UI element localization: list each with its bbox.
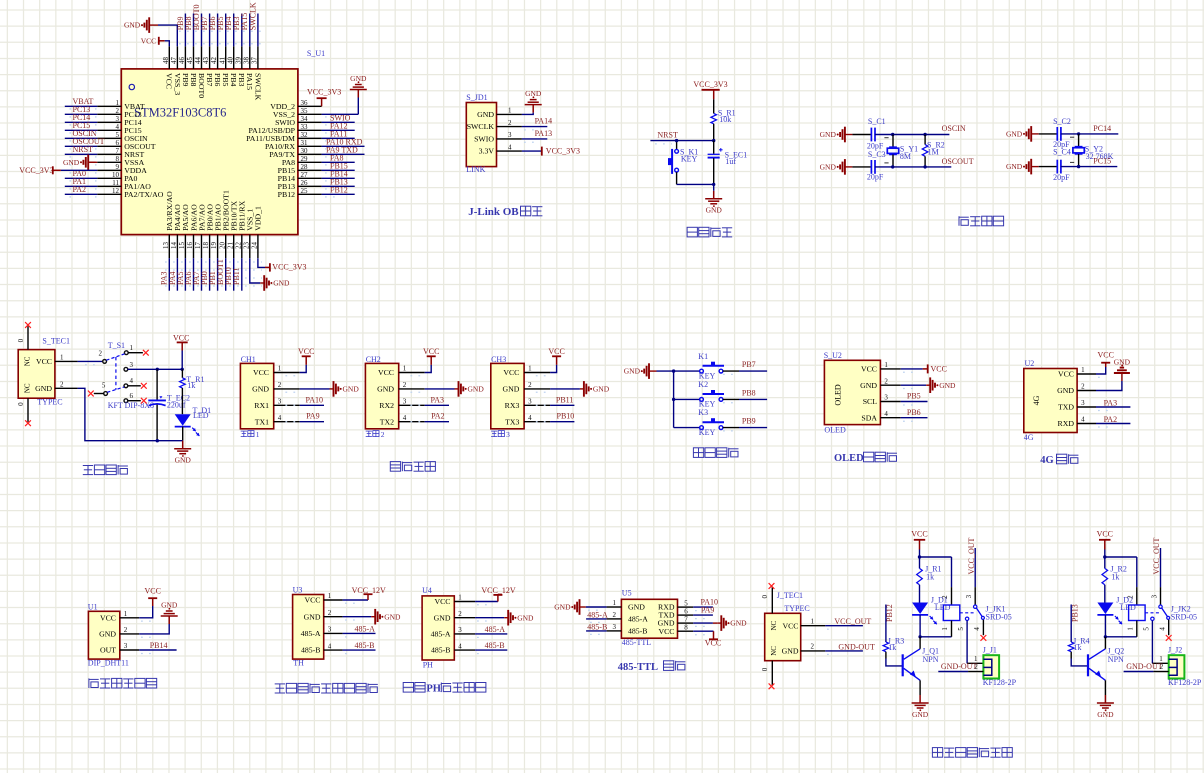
power GND at CH1 pin 2 xyxy=(285,381,359,397)
svg-text:VCC_3V3: VCC_3V3 xyxy=(307,88,341,97)
wire GND to C4 xyxy=(1039,166,1058,168)
svg-text:S_C1: S_C1 xyxy=(868,117,886,126)
power VCC at DHT11 pin 1 xyxy=(139,586,161,621)
svg-text:VCC_3V3: VCC_3V3 xyxy=(693,80,727,89)
svg-text:VCC_OUT: VCC_OUT xyxy=(1152,537,1161,574)
svg-text:PA15: PA15 xyxy=(245,73,254,90)
power VCC_12V at U3 pin 1 xyxy=(343,586,386,604)
svg-text:U2: U2 xyxy=(1025,359,1035,368)
wire LED to collector node 1 xyxy=(919,615,921,637)
svg-text:1: 1 xyxy=(1126,627,1134,631)
U1 top pin stubs xyxy=(169,46,258,69)
svg-text:RX2: RX2 xyxy=(379,401,394,410)
capacitor S_C1 20pF xyxy=(867,117,886,150)
svg-text:GND: GND xyxy=(624,367,641,376)
svg-text:6: 6 xyxy=(130,392,134,400)
sensor U1 DIP_DHT11 body xyxy=(88,602,129,667)
wire and net label PA13 (S_JD1 pin 3) xyxy=(522,129,552,142)
svg-text:485-B: 485-B xyxy=(587,622,607,631)
resistor S_R1 10k xyxy=(711,108,736,123)
svg-text:1: 1 xyxy=(1081,366,1085,374)
resistor J_R4 1k xyxy=(1068,636,1089,652)
title J-Link OB interface xyxy=(468,206,542,218)
svg-text:VCC: VCC xyxy=(782,621,798,630)
connector CH3 body xyxy=(491,355,524,429)
S_TEC1 shell pin bottom no-connect xyxy=(17,398,31,426)
svg-text:VCC: VCC xyxy=(1058,370,1074,379)
LED J_D1 xyxy=(912,596,951,625)
svg-text:1k: 1k xyxy=(1074,643,1082,652)
svg-text:OSCOUT: OSCOUT xyxy=(942,157,974,166)
wire and net label PB0 (U1 pin 18) xyxy=(200,258,210,291)
svg-text:GND: GND xyxy=(1114,358,1131,367)
title 4G module xyxy=(1040,454,1078,466)
power VCC at CH2 pin 1 xyxy=(410,347,439,376)
grid marks left of U1 xyxy=(70,108,96,200)
svg-text:VCC: VCC xyxy=(173,334,189,343)
wire J_R3 to base xyxy=(886,652,903,666)
svg-text:485-TTL: 485-TTL xyxy=(618,662,658,673)
svg-text:PH: PH xyxy=(426,684,441,695)
power VCC at S_U2 pin 1 xyxy=(901,364,947,373)
svg-text:GND: GND xyxy=(554,603,571,612)
connector CH2 body xyxy=(365,355,398,429)
power GND of relay circuit 1 xyxy=(912,695,929,719)
svg-text:U5: U5 xyxy=(622,589,632,598)
svg-text:1M: 1M xyxy=(928,148,939,157)
svg-text:485-A: 485-A xyxy=(485,625,506,634)
svg-text:GND: GND xyxy=(502,385,519,394)
svg-text:GND: GND xyxy=(860,381,877,390)
svg-text:3: 3 xyxy=(613,623,617,631)
svg-text:CH3: CH3 xyxy=(491,355,506,364)
LED J_D2 xyxy=(1097,596,1136,625)
no-connect X relay 2 pin 4 xyxy=(1166,635,1172,641)
power VCC of relay circuit 2 xyxy=(1097,530,1113,558)
svg-text:3: 3 xyxy=(965,594,973,598)
svg-text:GND: GND xyxy=(593,385,610,394)
svg-text:1k: 1k xyxy=(1111,572,1119,581)
svg-text:1uf: 1uf xyxy=(725,157,736,166)
wire and net label PA14 (S_JD1 pin 2) xyxy=(522,117,552,130)
svg-text:4G: 4G xyxy=(1024,433,1034,442)
wire and net label 485-B at U3 pin 4 xyxy=(343,641,376,654)
wire and net label GND-OUT at J_TEC1 pin 2 xyxy=(825,643,875,655)
svg-text:CH1: CH1 xyxy=(241,355,256,364)
svg-text:1: 1 xyxy=(130,344,134,352)
push button K1 KEY xyxy=(698,352,724,381)
svg-text:GND: GND xyxy=(912,710,929,719)
svg-text:5: 5 xyxy=(957,627,965,631)
capacitor S_C3 20pF xyxy=(867,150,886,181)
wire GND to keys xyxy=(657,369,701,427)
wire and net label PB7 at K1 xyxy=(723,360,767,374)
U4 pin names xyxy=(431,597,451,655)
relay J_JK2 SRD-05 coil xyxy=(1126,557,1197,637)
svg-text:S_C2: S_C2 xyxy=(1053,117,1071,126)
module U5 485-TTL body xyxy=(621,589,677,647)
wire and net label PA9 TXD (U1 pin 30) xyxy=(322,146,365,155)
wire and net label SWCLK (U1 pin 37) xyxy=(248,2,258,46)
wire PC15 net xyxy=(1061,157,1118,169)
svg-text:OLED: OLED xyxy=(834,453,864,464)
svg-text:2: 2 xyxy=(458,610,462,618)
power GND at S_U2 pin 2 xyxy=(901,377,956,393)
node junction collector 2 xyxy=(1104,635,1137,638)
capacitor T_EC2 220uf polarized xyxy=(148,369,190,440)
svg-text:8M: 8M xyxy=(900,152,911,161)
U1 right pin names xyxy=(246,102,295,199)
power GND at U3 pin 2 xyxy=(343,609,401,625)
svg-text:LED: LED xyxy=(193,411,209,420)
wire and net label PA1 (U1 pin 11) xyxy=(65,177,97,186)
svg-text:3: 3 xyxy=(1081,399,1085,407)
svg-text:5: 5 xyxy=(1142,627,1150,631)
power GND at CH3 pin 2 xyxy=(536,381,610,397)
svg-text:7: 7 xyxy=(684,615,688,623)
svg-text:K3: K3 xyxy=(698,408,708,417)
power GND of relay circuit 2 xyxy=(1097,695,1114,719)
S_JD1 pin stubs and numbers xyxy=(497,107,522,152)
wire and net label PB7 (U1 pin 43) xyxy=(200,14,210,47)
wire and net label VBAT (U1 pin 1) xyxy=(65,97,97,106)
connector S_JD1 J-Link body xyxy=(466,93,496,174)
S_JD1 pin names xyxy=(467,110,495,156)
module U2 4G body xyxy=(1024,359,1077,442)
svg-text:GND: GND xyxy=(820,130,837,139)
svg-text:4: 4 xyxy=(884,410,888,418)
power GND at S_C4 xyxy=(1006,159,1039,175)
wire and net label PB15 (U1 pin 28) xyxy=(322,162,355,171)
svg-text:VCC_3V3: VCC_3V3 xyxy=(19,166,53,175)
svg-text:4: 4 xyxy=(328,642,332,650)
svg-text:NC: NC xyxy=(770,646,778,656)
svg-text:SRD-05: SRD-05 xyxy=(1171,613,1197,622)
svg-text:PB6: PB6 xyxy=(213,73,222,87)
relay J_JK1 SRD-05 coil xyxy=(941,557,1012,637)
svg-text:VCC: VCC xyxy=(658,627,674,636)
wire and net label PA5 (U1 pin 15) xyxy=(176,258,186,291)
wire OSCOUT net xyxy=(875,157,974,167)
svg-text:4: 4 xyxy=(1081,416,1085,424)
resistor J_R2 1k xyxy=(1102,557,1127,585)
wire and net label VCC_OUT at J_TEC1 pin 1 xyxy=(825,617,871,629)
S_U2 pin names xyxy=(860,365,877,423)
svg-text:PA10: PA10 xyxy=(306,395,324,404)
terminal block J_J1 KF128-2P xyxy=(983,646,1017,687)
svg-text:5: 5 xyxy=(684,599,688,607)
svg-text:VCC: VCC xyxy=(144,586,160,595)
svg-text:4: 4 xyxy=(403,414,407,422)
svg-text:SWCLK: SWCLK xyxy=(467,122,495,131)
svg-text:485-B: 485-B xyxy=(431,646,451,655)
svg-text:PB12: PB12 xyxy=(278,190,295,199)
svg-text:VCC: VCC xyxy=(100,613,116,622)
svg-text:VCC_12V: VCC_12V xyxy=(352,586,386,595)
wire and net label PA10 at CH1 pin 3 xyxy=(285,395,324,405)
title soil PH detect module xyxy=(403,683,486,695)
wire and net label PB11 (U1 pin 22) xyxy=(232,258,242,291)
power VCC_3V3 at S_JD1 pin 4 xyxy=(522,146,580,155)
power GND of key circuit xyxy=(624,363,657,379)
svg-text:SWCLK: SWCLK xyxy=(248,2,257,30)
crystal S_Y1 8M xyxy=(884,135,918,167)
svg-text:GND: GND xyxy=(468,385,485,394)
wire and net label PB12 (U1 pin 25) xyxy=(322,186,355,195)
power GND at S_C1 xyxy=(820,127,853,143)
svg-text:3: 3 xyxy=(506,430,510,439)
wire and net label PB5 at S_U2 pin 3 xyxy=(901,392,928,405)
svg-text:VCC: VCC xyxy=(165,73,174,89)
svg-text:SWIO: SWIO xyxy=(474,135,494,144)
svg-text:OLED: OLED xyxy=(834,384,843,406)
wire and net label BOOT0 (U1 pin 44) xyxy=(192,5,202,47)
relay J_JK2 switch xyxy=(1142,587,1169,635)
power GND at U1 pin 8 VSSA xyxy=(63,155,97,171)
wire and net label PB10 at CH3 pin 4 xyxy=(536,412,575,422)
S_TEC1 pin names VCC GND NC xyxy=(24,356,53,393)
svg-text:1: 1 xyxy=(256,430,260,439)
wire and net label PB11 at CH3 pin 3 xyxy=(536,395,575,405)
power GND at U1 pin 35 VSS_2 xyxy=(322,74,367,114)
CH3 pin names xyxy=(502,368,519,426)
svg-text:OLED: OLED xyxy=(824,425,846,434)
wire and net label PB14 at DHT11 pin 3 xyxy=(139,641,176,654)
svg-text:S_U1: S_U1 xyxy=(307,49,325,58)
wire and net label PA2 at U2 pin 4 xyxy=(1096,415,1130,427)
transistor J_Q1 NPN xyxy=(903,647,939,681)
wire and net label 485-A at U5 pin 2 xyxy=(586,610,608,622)
svg-text:GND: GND xyxy=(124,21,141,30)
svg-text:NRST: NRST xyxy=(657,131,678,140)
U3 pin names xyxy=(301,596,321,655)
wire and net label PB13 (U1 pin 26) xyxy=(322,178,355,187)
svg-text:OSCIN: OSCIN xyxy=(942,124,966,133)
svg-text:1: 1 xyxy=(124,610,128,618)
svg-text:8: 8 xyxy=(684,623,688,631)
svg-text:1k: 1k xyxy=(187,381,195,390)
svg-text:PA9: PA9 xyxy=(306,412,320,421)
wire and net label PB8 at K2 xyxy=(723,389,767,403)
svg-text:4: 4 xyxy=(508,143,512,151)
power GND at U5 pin 7 xyxy=(693,615,747,631)
svg-text:4: 4 xyxy=(130,377,134,385)
svg-text:GND-OUT: GND-OUT xyxy=(838,643,875,652)
svg-text:GND: GND xyxy=(706,206,723,215)
svg-text:S_TEC1: S_TEC1 xyxy=(42,337,70,346)
designator S_U1 xyxy=(307,49,325,58)
svg-text:STM32F103C8T6: STM32F103C8T6 xyxy=(134,106,226,120)
power VCC at U2 pin 1 xyxy=(1096,350,1114,377)
grid marks above U1 xyxy=(179,31,262,44)
wire node to key K1 xyxy=(675,139,678,149)
svg-text:CH2: CH2 xyxy=(366,355,381,364)
wire R1 to NRST node xyxy=(713,124,715,141)
svg-text:485-A: 485-A xyxy=(355,624,376,633)
S_U2 pin stubs and numbers xyxy=(880,361,900,418)
grid marks right of U1 xyxy=(326,116,334,198)
resistor J_R1 1k xyxy=(917,557,942,585)
wire GND to C2 xyxy=(1039,133,1058,135)
svg-text:SCL: SCL xyxy=(863,397,878,406)
svg-text:GND: GND xyxy=(517,613,534,622)
svg-text:1: 1 xyxy=(278,365,282,373)
wire and net label 485-B at U4 pin 4 xyxy=(475,641,507,654)
svg-text:2: 2 xyxy=(99,350,103,358)
wire and net label PA3 at U2 pin 3 xyxy=(1096,398,1130,410)
svg-text:DIP_DHT11: DIP_DHT11 xyxy=(88,658,129,667)
svg-text:GND: GND xyxy=(99,630,116,639)
svg-text:1k: 1k xyxy=(926,572,934,581)
wire and net label PA12 (U1 pin 33) xyxy=(322,122,355,131)
svg-text:KFT DIP-8X8: KFT DIP-8X8 xyxy=(108,401,154,410)
svg-text:PB3: PB3 xyxy=(237,73,246,87)
push button S_K1 KEY xyxy=(668,147,698,174)
wire and rotated net label PB13 relay 2 xyxy=(1070,604,1079,642)
wire OSCIN net xyxy=(875,124,966,135)
svg-text:NC: NC xyxy=(770,621,778,631)
svg-text:VCC: VCC xyxy=(861,365,877,374)
svg-text:VCC_3V3: VCC_3V3 xyxy=(272,262,306,271)
svg-text:GND: GND xyxy=(304,612,321,621)
svg-text:PA14: PA14 xyxy=(535,117,553,126)
wire and net label PB4 (U1 pin 40) xyxy=(224,14,234,47)
title soil temperature-humidity detect module xyxy=(275,683,378,693)
title crystal circuit xyxy=(959,216,1004,226)
svg-text:0: 0 xyxy=(17,402,25,406)
svg-text:1: 1 xyxy=(613,599,617,607)
svg-text:PB9: PB9 xyxy=(181,73,190,87)
U1 bottom pin stubs xyxy=(169,235,258,259)
svg-text:4: 4 xyxy=(973,627,981,631)
power VCC at U1 pin 48 xyxy=(141,36,170,46)
J_TEC1 shell pin bottom no-connect xyxy=(761,661,774,690)
svg-text:6: 6 xyxy=(684,607,688,615)
wire and net label PC14 (U1 pin 3) xyxy=(65,113,97,122)
svg-text:2: 2 xyxy=(613,611,617,619)
svg-text:GND: GND xyxy=(782,647,799,656)
wire GND to C3 xyxy=(852,166,871,168)
power GND at U1 pin 23 VSS_1 xyxy=(250,258,290,291)
power GND at DHT11 pin 2 xyxy=(139,601,178,638)
svg-text:2: 2 xyxy=(811,643,815,651)
svg-text:2: 2 xyxy=(1160,663,1164,671)
svg-text:PB9: PB9 xyxy=(742,417,756,426)
svg-text:U3: U3 xyxy=(293,585,303,594)
svg-text:GND: GND xyxy=(628,603,645,612)
svg-text:1: 1 xyxy=(811,617,815,625)
svg-text:3: 3 xyxy=(458,626,462,634)
resistor S_R2 1M xyxy=(922,135,944,167)
svg-text:2: 2 xyxy=(974,663,978,671)
svg-text:S_C3: S_C3 xyxy=(868,150,886,159)
U1 bottom pin numbers 13-24 xyxy=(162,242,259,250)
wire and net label PA11 (U1 pin 32) xyxy=(322,130,355,139)
title 485-TTL module xyxy=(618,661,686,673)
svg-text:1: 1 xyxy=(941,627,949,631)
svg-text:U1: U1 xyxy=(88,602,98,611)
svg-text:GND: GND xyxy=(35,384,52,393)
switch T_S1 pin4 stub no-connect xyxy=(128,383,147,389)
svg-text:PB11: PB11 xyxy=(232,268,241,286)
svg-text:4: 4 xyxy=(458,642,462,650)
svg-text:485-TTL: 485-TTL xyxy=(622,638,651,647)
svg-text:GND: GND xyxy=(161,601,178,610)
svg-text:PA2: PA2 xyxy=(431,412,445,421)
connector S_TEC1 TYPEC body xyxy=(18,337,70,407)
svg-text:2: 2 xyxy=(381,430,385,439)
svg-text:485-A: 485-A xyxy=(431,630,451,639)
svg-text:3: 3 xyxy=(328,626,332,634)
svg-text:GND: GND xyxy=(252,385,269,394)
power GND at S_C3 xyxy=(820,159,853,175)
resistor J_R3 1k xyxy=(883,636,904,652)
svg-text:NC: NC xyxy=(24,383,32,393)
svg-text:PA2: PA2 xyxy=(1104,415,1118,424)
svg-text:2: 2 xyxy=(941,595,949,599)
svg-text:20pF: 20pF xyxy=(867,172,884,181)
connector CH1 body xyxy=(240,355,273,429)
svg-text:PA3: PA3 xyxy=(1104,398,1118,407)
svg-text:0: 0 xyxy=(761,667,769,671)
power VCC of power circuit xyxy=(173,334,189,370)
U3 pin stubs and numbers xyxy=(324,592,343,650)
svg-text:PB12: PB12 xyxy=(885,604,894,622)
svg-text:TX3: TX3 xyxy=(505,417,519,426)
crystal S_Y2 32.768K xyxy=(1070,134,1114,167)
switch T_S1 pin5 stub no-connect xyxy=(88,391,104,397)
svg-text:PB7: PB7 xyxy=(742,360,756,369)
svg-text:K1: K1 xyxy=(698,352,708,361)
svg-text:TX1: TX1 xyxy=(255,417,269,426)
svg-text:GND: GND xyxy=(730,619,747,628)
S_TEC1 shell pin top no-connect xyxy=(17,322,31,350)
svg-text:VCC: VCC xyxy=(503,368,519,377)
svg-text:4G: 4G xyxy=(1032,395,1041,405)
svg-text:485-B: 485-B xyxy=(628,627,648,636)
wire S_TEC1 VCC to switch xyxy=(78,361,103,364)
svg-text:4G: 4G xyxy=(1040,455,1053,466)
wire S_TEC1 GND to ground rail xyxy=(78,388,183,442)
power VCC at CH1 pin 1 xyxy=(285,347,314,376)
svg-text:PC15: PC15 xyxy=(1093,157,1111,166)
title reset circuit xyxy=(687,227,732,237)
no-connect X relay 1 pin 4 xyxy=(981,635,987,641)
svg-text:SRD-05: SRD-05 xyxy=(986,613,1012,622)
svg-text:PB5: PB5 xyxy=(907,392,921,401)
wire and net label PB8 (U1 pin 45) xyxy=(184,14,194,47)
svg-text:GND: GND xyxy=(434,613,451,622)
svg-text:GND: GND xyxy=(477,110,494,119)
power GND at U2 pin 2 xyxy=(1096,358,1131,391)
svg-text:VCC: VCC xyxy=(548,347,564,356)
wire VCC_3V3 to R1 xyxy=(713,99,715,113)
switch T_S1 KFT DIP-8X8 xyxy=(99,341,155,410)
node junction collector 1 xyxy=(918,635,951,638)
U1 DHT11 pin names xyxy=(99,613,116,654)
svg-text:10k: 10k xyxy=(719,115,731,124)
wire LED to collector node 2 xyxy=(1104,615,1106,637)
wire and rotated net label PB12 relay 1 xyxy=(885,604,894,642)
wire and net label SWIO (U1 pin 34) xyxy=(322,114,355,123)
svg-text:VCC: VCC xyxy=(304,596,320,605)
svg-text:VCC_12V: VCC_12V xyxy=(481,586,515,595)
wire and rotated net label VCC_OUT relay 2 xyxy=(1152,537,1161,587)
svg-text:3: 3 xyxy=(508,131,512,139)
U2 pin names xyxy=(1057,370,1074,429)
resistor T_R1 1k xyxy=(180,369,205,414)
svg-text:GND: GND xyxy=(350,74,367,83)
